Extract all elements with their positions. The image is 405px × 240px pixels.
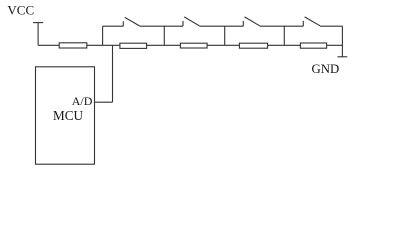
svg-text:GND: GND — [312, 62, 340, 76]
svg-text:MCU: MCU — [53, 108, 84, 123]
svg-text:A/D: A/D — [72, 94, 93, 108]
svg-text:VCC: VCC — [7, 3, 34, 18]
